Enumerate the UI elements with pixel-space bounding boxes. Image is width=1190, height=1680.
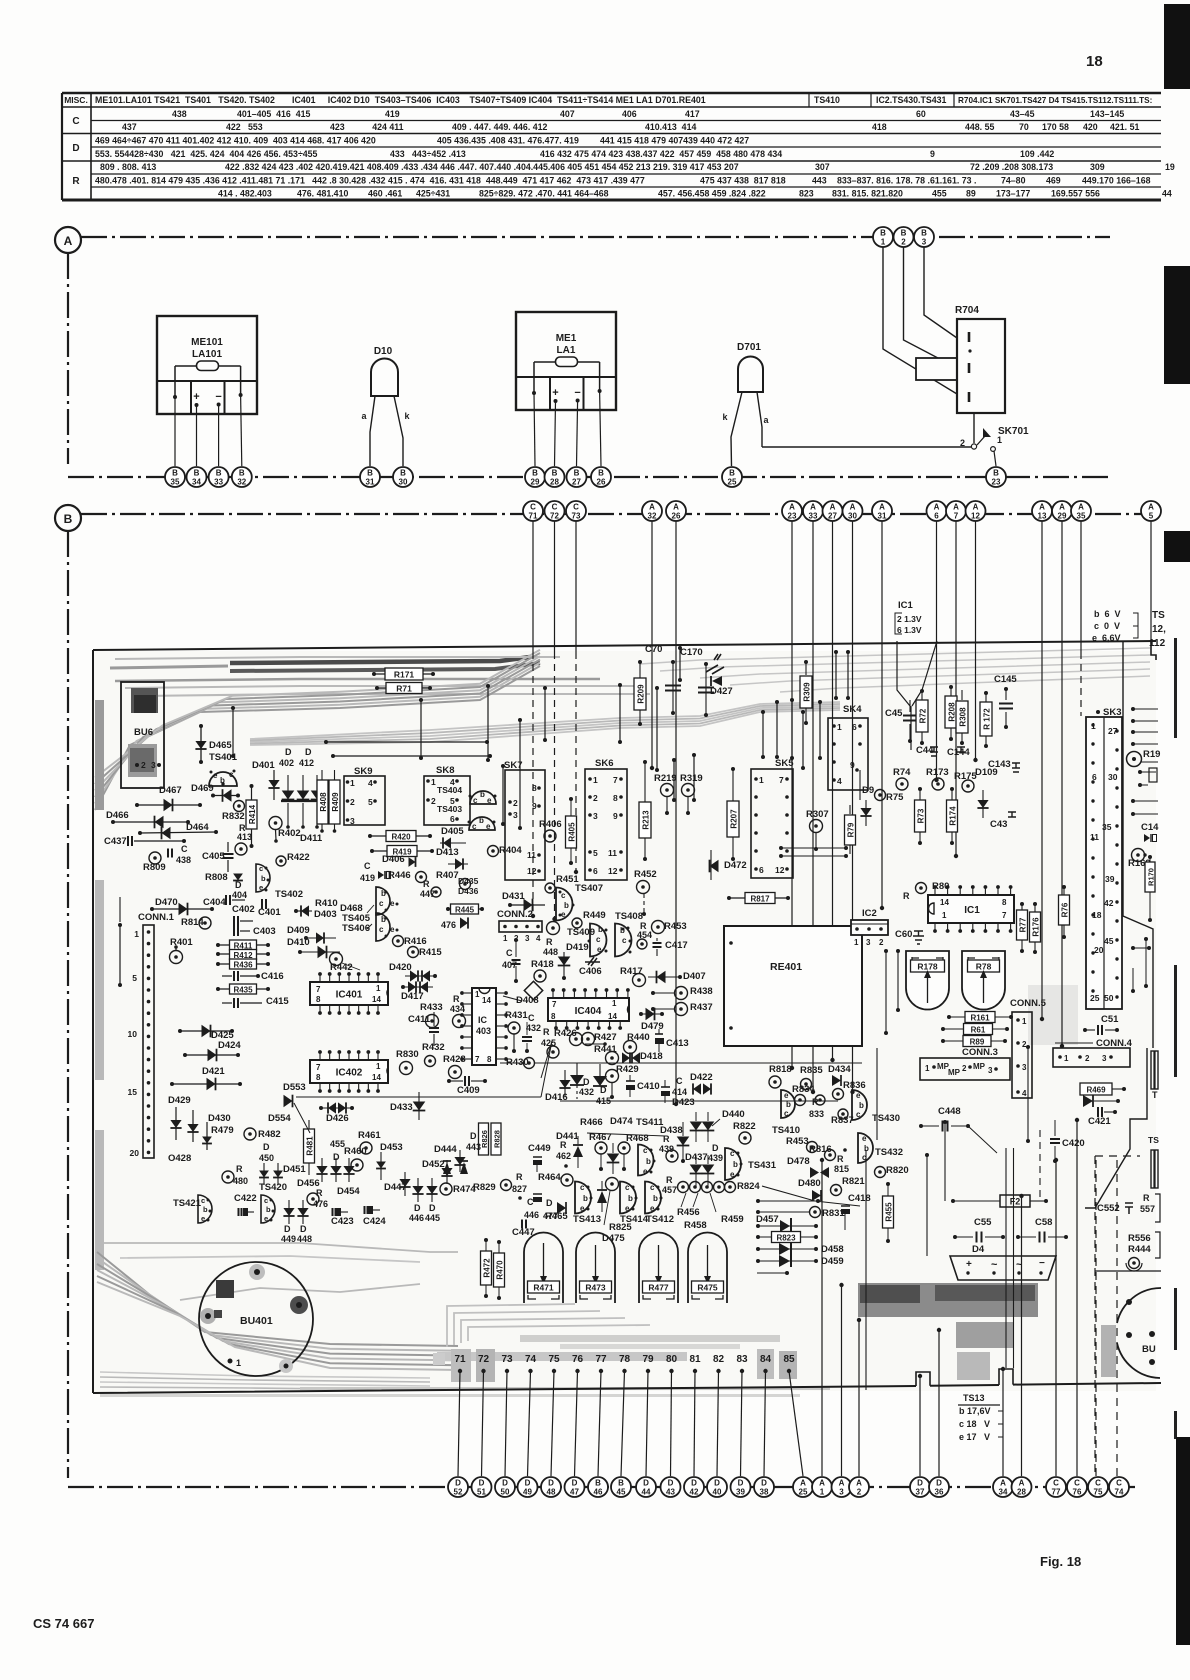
terminal D37	[910, 1477, 930, 1497]
svg-text:1: 1	[881, 238, 886, 247]
wire funnel traces	[897, 641, 910, 706]
resistor R436	[218, 963, 268, 965]
svg-text:D434: D434	[828, 1064, 851, 1075]
svg-text:23: 23	[788, 512, 797, 521]
svg-text:2: 2	[901, 238, 906, 247]
svg-text:112: 112	[1149, 638, 1166, 649]
svg-text:R173: R173	[926, 767, 949, 778]
svg-text:C: C	[1074, 1479, 1080, 1488]
svg-text:C: C	[1053, 1479, 1059, 1488]
svg-text:20: 20	[130, 1148, 140, 1158]
IC IC402	[310, 1060, 388, 1083]
transistor TS406 symbol	[376, 913, 390, 941]
svg-text:76: 76	[1073, 1488, 1082, 1497]
wire conn1 long left	[119, 897, 121, 922]
svg-text:D457: D457	[756, 1214, 779, 1225]
transistor TS402	[256, 864, 270, 892]
svg-text:C: C	[528, 1013, 535, 1023]
svg-text:B: B	[618, 1479, 624, 1488]
terminal B26	[591, 467, 611, 487]
svg-text:D: D	[548, 1479, 554, 1488]
svg-text:b: b	[733, 1160, 738, 1169]
svg-text:C45: C45	[885, 708, 903, 719]
resistor R309 vertical	[805, 663, 807, 675]
svg-text:9: 9	[532, 801, 537, 811]
svg-text:469 464÷467 470 411 401.402 41: 469 464÷467 470 411 401.402 412 410. 409…	[95, 136, 376, 146]
svg-text:35: 35	[171, 478, 180, 487]
svg-text:F2: F2	[1010, 1197, 1021, 1207]
svg-text:R404: R404	[499, 845, 522, 856]
svg-text:R455: R455	[885, 1202, 894, 1222]
svg-text:D: D	[235, 880, 242, 890]
svg-text:3: 3	[922, 238, 927, 247]
svg-text:TS403: TS403	[437, 804, 462, 814]
grey patch near TS13	[956, 1322, 1013, 1348]
svg-text:D438: D438	[660, 1125, 683, 1136]
svg-text:R438: R438	[690, 986, 713, 997]
svg-text:e: e	[625, 1204, 630, 1213]
svg-text:R213: R213	[642, 810, 651, 830]
svg-text:D452: D452	[422, 1159, 445, 1170]
svg-text:R308: R308	[959, 707, 968, 727]
svg-text:b: b	[598, 925, 603, 934]
svg-text:TS412: TS412	[646, 1214, 674, 1225]
wire horizontal above BU right	[1095, 1270, 1161, 1272]
svg-text:R469: R469	[1086, 1086, 1106, 1095]
svg-text:R174: R174	[949, 806, 958, 826]
pcb top-left corner traces	[95, 666, 540, 810]
svg-text:R453: R453	[664, 921, 687, 932]
svg-text:1: 1	[134, 929, 139, 939]
svg-text:−: −	[215, 391, 221, 403]
terminal B32	[232, 467, 252, 487]
svg-text:422 .832 424 423 .402 420.419.: 422 .832 424 423 .402 420.419.421 408.40…	[225, 162, 739, 172]
terminal C73	[566, 501, 586, 521]
svg-text:84: 84	[760, 1354, 772, 1365]
svg-text:1: 1	[820, 1488, 825, 1497]
svg-text:C406: C406	[579, 966, 602, 977]
svg-text:D417: D417	[401, 991, 424, 1002]
resistor R209 vertical	[639, 663, 641, 678]
svg-text:c: c	[472, 822, 477, 831]
svg-text:26: 26	[597, 478, 606, 487]
svg-text:R72: R72	[919, 708, 928, 723]
svg-text:R418: R418	[531, 959, 554, 970]
section B frame circle	[55, 505, 81, 531]
svg-text:R: R	[423, 879, 430, 889]
svg-text:R556: R556	[1128, 1233, 1151, 1244]
svg-text:BU401: BU401	[240, 1315, 273, 1327]
resistor R172 vertical	[985, 694, 987, 703]
svg-text:71: 71	[529, 512, 538, 521]
svg-text:B: B	[901, 229, 907, 238]
svg-text:51: 51	[477, 1488, 486, 1497]
svg-text:831. 815. 821.820: 831. 815. 821.820	[832, 189, 903, 199]
svg-text:40: 40	[713, 1488, 722, 1497]
svg-text:D403: D403	[314, 909, 337, 920]
svg-text:14: 14	[372, 995, 381, 1004]
svg-text:R420: R420	[391, 833, 411, 842]
svg-text:443: 443	[812, 176, 827, 186]
svg-text:8: 8	[316, 1073, 321, 1082]
terminal A12	[966, 501, 986, 521]
diode D404	[233, 874, 243, 881]
svg-text:C403: C403	[253, 926, 276, 937]
svg-text:b: b	[653, 1194, 658, 1203]
wire ME1 pins to terminals	[534, 393, 535, 466]
svg-text:TS430: TS430	[872, 1113, 900, 1124]
svg-text:TS: TS	[1152, 610, 1165, 621]
terminal B30	[393, 467, 413, 487]
terminal B34	[187, 467, 207, 487]
terminal D39	[731, 1477, 751, 1497]
svg-text:R460: R460	[344, 1146, 367, 1157]
svg-text:B: B	[400, 469, 406, 478]
wire pairs upper middle	[762, 712, 764, 757]
svg-text:c: c	[201, 1196, 205, 1205]
resistor R72 vertical	[921, 692, 923, 700]
svg-text:C70: C70	[645, 644, 662, 655]
svg-text:422 553: 422 553	[226, 122, 263, 132]
svg-text:D405: D405	[441, 826, 464, 837]
svg-text:445: 445	[425, 1213, 440, 1223]
transistor small left	[781, 1090, 795, 1118]
svg-text:D: D	[738, 1479, 744, 1488]
svg-text:32: 32	[237, 478, 246, 487]
svg-text:R809: R809	[143, 862, 166, 873]
svg-text:D465: D465	[209, 740, 232, 751]
svg-text:79: 79	[642, 1354, 654, 1365]
terminal B45	[611, 1477, 631, 1497]
svg-text:50: 50	[1104, 993, 1114, 1003]
right margin thin line d	[1174, 1411, 1177, 1439]
svg-text:B: B	[880, 229, 886, 238]
svg-text:R481: R481	[306, 1136, 315, 1156]
svg-text:b: b	[266, 1205, 271, 1214]
svg-text:IC1: IC1	[898, 600, 914, 611]
svg-text:823: 823	[799, 189, 814, 199]
svg-text:b: b	[786, 1100, 791, 1109]
terminal B1	[873, 227, 893, 247]
svg-text:49: 49	[523, 1488, 532, 1497]
svg-text:2: 2	[513, 798, 518, 808]
svg-text:C: C	[573, 503, 579, 512]
terminal C77	[1046, 1477, 1066, 1497]
svg-text:85: 85	[783, 1354, 795, 1365]
svg-text:C170: C170	[680, 647, 703, 658]
svg-text:8: 8	[551, 1012, 556, 1021]
svg-text:R429: R429	[616, 1064, 639, 1075]
svg-text:c: c	[379, 925, 384, 934]
svg-text:C422: C422	[234, 1193, 257, 1204]
svg-text:469: 469	[1046, 176, 1061, 186]
capacitor C420	[1054, 1120, 1056, 1136]
svg-text:D421: D421	[202, 1066, 225, 1077]
svg-text:403: 403	[476, 1026, 491, 1036]
svg-text:31: 31	[366, 478, 375, 487]
svg-text:R433: R433	[420, 1002, 443, 1013]
svg-text:30: 30	[1108, 772, 1118, 782]
wires right of SK3	[1133, 708, 1158, 710]
svg-text:2: 2	[431, 796, 436, 806]
svg-text:A: A	[830, 503, 836, 512]
terminal A27	[823, 501, 843, 521]
svg-text:C: C	[676, 1076, 683, 1086]
svg-text:R307: R307	[806, 809, 829, 820]
svg-text:2: 2	[960, 438, 965, 448]
svg-text:419: 419	[360, 873, 375, 883]
resistor R481 vertical	[304, 1129, 315, 1163]
svg-text:B: B	[64, 512, 73, 526]
svg-text:D444: D444	[434, 1144, 457, 1155]
svg-text:D466: D466	[106, 810, 129, 821]
svg-text:25: 25	[1090, 993, 1100, 1003]
svg-text:A: A	[973, 503, 979, 512]
svg-text:R61: R61	[971, 1026, 986, 1035]
svg-text:446: 446	[524, 1210, 539, 1220]
svg-text:C437: C437	[104, 836, 127, 847]
svg-text:D: D	[525, 1479, 531, 1488]
svg-text:35: 35	[1102, 822, 1112, 832]
svg-text:13: 13	[1038, 512, 1047, 521]
svg-text:R818: R818	[769, 1064, 792, 1075]
wire pairs left of SK4	[802, 712, 804, 768]
svg-text:5: 5	[1149, 512, 1154, 521]
svg-text:D422: D422	[690, 1072, 713, 1083]
svg-text:R823: R823	[776, 1234, 796, 1243]
svg-text:A: A	[850, 503, 856, 512]
svg-text:A: A	[934, 503, 940, 512]
svg-text:9: 9	[850, 760, 855, 770]
capacitor C415	[233, 998, 235, 1008]
svg-text:R821: R821	[842, 1176, 865, 1187]
svg-text:CONN.5: CONN.5	[1010, 998, 1047, 1009]
svg-text:8: 8	[1002, 898, 1007, 907]
svg-text:R71: R71	[396, 684, 412, 694]
svg-text:D: D	[305, 747, 312, 757]
diode D403 symbol	[296, 910, 312, 912]
svg-text:15: 15	[128, 1087, 138, 1097]
svg-text:C: C	[506, 948, 513, 958]
svg-text:170 58: 170 58	[1042, 122, 1069, 132]
svg-text:R: R	[837, 1154, 844, 1164]
svg-text:2: 2	[962, 1064, 967, 1073]
svg-text:C58: C58	[1035, 1217, 1052, 1228]
svg-text:IC402: IC402	[336, 1068, 363, 1079]
svg-text:b: b	[480, 790, 485, 799]
svg-text:3: 3	[350, 816, 355, 826]
diodes D449 D448	[283, 1208, 294, 1216]
svg-text:R826: R826	[480, 1130, 489, 1148]
svg-text:1: 1	[1064, 1054, 1069, 1063]
trimmer R825	[606, 1178, 619, 1191]
svg-text:RE401: RE401	[770, 961, 802, 973]
lamp module ME1 LA1	[516, 312, 616, 410]
trimmer R482	[244, 1128, 256, 1140]
resistor R828 vertical	[491, 1123, 502, 1155]
svg-text:33: 33	[214, 478, 223, 487]
svg-text:455: 455	[932, 189, 947, 199]
svg-text:CS 74 667: CS 74 667	[33, 1616, 94, 1631]
svg-text:31: 31	[878, 512, 887, 521]
power connector BU right	[1117, 1288, 1161, 1378]
resistor R213 vertical	[644, 763, 646, 802]
svg-text:c: c	[379, 899, 384, 908]
pcb bottom band speckle	[300, 1387, 830, 1390]
svg-text:43: 43	[666, 1488, 675, 1497]
terminal A33	[803, 501, 823, 521]
svg-text:414: 414	[672, 1087, 687, 1097]
svg-text:A: A	[879, 503, 885, 512]
wire D701 leg k	[731, 392, 742, 466]
terminal B2	[894, 227, 914, 247]
transistor TS405 symbol	[376, 887, 390, 915]
svg-text:25: 25	[728, 478, 737, 487]
svg-text:307: 307	[815, 162, 830, 172]
svg-text:74: 74	[525, 1354, 537, 1365]
svg-text:30: 30	[399, 478, 408, 487]
power resistor R477	[639, 1233, 678, 1303]
svg-text:1: 1	[854, 938, 859, 947]
svg-text:LA1: LA1	[557, 345, 576, 356]
svg-text:39: 39	[1105, 874, 1115, 884]
svg-text:D420: D420	[389, 962, 412, 973]
wires right edge bottom pairs	[1133, 947, 1149, 949]
svg-text:A: A	[789, 503, 795, 512]
svg-text:447: 447	[420, 889, 435, 899]
svg-text:76: 76	[572, 1354, 584, 1365]
svg-text:c: c	[622, 936, 627, 945]
svg-text:417: 417	[685, 109, 700, 119]
svg-text:9: 9	[613, 811, 618, 821]
svg-text:C: C	[1116, 1479, 1122, 1488]
svg-text:37: 37	[916, 1488, 925, 1497]
svg-text:D: D	[429, 1203, 436, 1213]
svg-text:409 . 447. 449. 446. 412: 409 . 447. 449. 446. 412	[452, 122, 547, 132]
svg-text:448: 448	[543, 947, 558, 957]
svg-text:C145: C145	[994, 674, 1017, 685]
transistor TS404 symbol	[470, 791, 496, 804]
svg-text:6: 6	[759, 865, 764, 875]
svg-text:C423: C423	[331, 1216, 354, 1227]
right margin thin line c	[1174, 1288, 1177, 1350]
resistor R71	[377, 687, 430, 689]
svg-text:TS410: TS410	[772, 1125, 800, 1136]
svg-text:14: 14	[608, 1012, 617, 1021]
svg-text:R436: R436	[233, 961, 253, 970]
svg-text:75: 75	[548, 1354, 560, 1365]
grey patch right bottom	[1101, 1325, 1116, 1377]
svg-text:R466: R466	[580, 1117, 603, 1128]
terminal A30	[843, 501, 863, 521]
pcb board corner step top right	[1151, 641, 1156, 660]
terminal C76	[1067, 1477, 1087, 1497]
pcb right area boundary trace	[1123, 642, 1153, 1048]
svg-text:R824: R824	[737, 1181, 760, 1192]
svg-text:BU: BU	[1142, 1344, 1156, 1355]
svg-text:D: D	[333, 1152, 340, 1162]
svg-text:3: 3	[839, 1488, 844, 1497]
trimmer R831	[757, 1211, 809, 1213]
terminal A2	[849, 1477, 869, 1497]
terminal B29	[525, 467, 545, 487]
svg-text:b: b	[261, 874, 266, 883]
svg-text:D426: D426	[326, 1113, 349, 1124]
svg-text:D436: D436	[458, 886, 479, 896]
svg-text:C416: C416	[261, 971, 284, 982]
svg-text:46: 46	[594, 1488, 603, 1497]
svg-text:7: 7	[779, 775, 784, 785]
svg-text:+: +	[193, 391, 199, 403]
section A frame circle	[55, 227, 81, 253]
pcb bottom-left upper traces	[97, 1243, 458, 1252]
svg-text:423: 423	[330, 122, 345, 132]
svg-text:34: 34	[192, 478, 201, 487]
transistor TS420	[261, 1195, 275, 1223]
svg-text:A: A	[1039, 503, 1045, 512]
svg-text:460 .461: 460 .461	[368, 189, 402, 199]
svg-text:438: 438	[172, 109, 187, 119]
svg-text:b: b	[628, 1194, 633, 1203]
svg-text:7: 7	[475, 1055, 480, 1064]
svg-text:R417: R417	[620, 966, 643, 977]
terminal B46	[588, 1477, 608, 1497]
svg-text:412: 412	[299, 758, 314, 768]
svg-text:ME101: ME101	[191, 337, 223, 348]
svg-text:419: 419	[385, 109, 400, 119]
svg-text:8: 8	[487, 1055, 492, 1064]
capacitor C424	[368, 1206, 373, 1214]
svg-text:404: 404	[232, 890, 247, 900]
svg-text:R19: R19	[1143, 749, 1160, 760]
svg-text:R75: R75	[886, 792, 904, 803]
svg-text:IC: IC	[478, 1015, 488, 1025]
resistor R420	[370, 835, 430, 837]
svg-text:e: e	[784, 1091, 789, 1100]
svg-text:89: 89	[966, 189, 976, 199]
svg-text:b: b	[620, 926, 625, 935]
svg-text:e: e	[730, 1170, 735, 1179]
transistor TS403 symbol	[469, 817, 495, 830]
fuse F2	[953, 1200, 1000, 1202]
svg-text:12: 12	[971, 512, 980, 521]
svg-text:D431: D431	[502, 891, 525, 902]
svg-text:34: 34	[999, 1488, 1008, 1497]
pcb left edge grey strip	[95, 700, 104, 810]
svg-text:D: D	[583, 1077, 590, 1087]
svg-text:405 436.435 .408 431. 476.477.: 405 436.435 .408 431. 476.477. 419	[437, 136, 579, 146]
svg-text:406: 406	[622, 109, 637, 119]
diodes D446 D445	[412, 1186, 423, 1194]
svg-text:1: 1	[503, 934, 508, 943]
wire D10 cathode leg k	[394, 396, 403, 466]
svg-text:e: e	[259, 883, 263, 892]
svg-text:TS13: TS13	[963, 1393, 985, 1403]
svg-text:D410: D410	[287, 937, 310, 948]
terminal B35	[165, 467, 185, 487]
svg-text:R820: R820	[886, 1165, 909, 1176]
svg-text:36: 36	[935, 1488, 944, 1497]
svg-text:e 6,6V: e 6,6V	[1092, 633, 1121, 643]
svg-text:e: e	[390, 899, 395, 908]
svg-text:R475: R475	[697, 1283, 718, 1293]
wire D10 anode leg a	[370, 396, 375, 466]
svg-text:C14: C14	[1141, 822, 1159, 833]
svg-text:R77: R77	[1019, 917, 1028, 932]
right margin black bar top	[1164, 4, 1190, 89]
svg-text:c: c	[473, 796, 478, 805]
svg-text:D419: D419	[566, 942, 589, 953]
